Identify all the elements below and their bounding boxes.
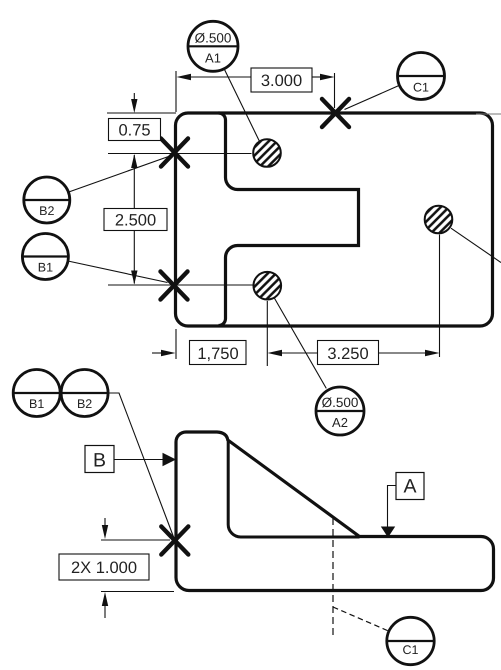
svg-text:B2: B2 (39, 204, 54, 218)
datum feature triangle A (381, 527, 395, 538)
leader A box to datum triangle (388, 486, 397, 529)
datum feature triangle B (163, 453, 177, 467)
svg-text:B1: B1 (38, 261, 53, 275)
hidden target centerline (dashed vertical) (332, 518, 334, 636)
svg-text:B2: B2 (77, 397, 92, 411)
datum letter box A (396, 473, 424, 500)
datum target area A2 (hatched circle) (253, 272, 281, 300)
extension line left edge (3.000 dim) (175, 71, 177, 112)
dimension line 3.000 left segment with arrow (177, 74, 252, 81)
wall face and base top edge (front view) (228, 441, 359, 537)
svg-text:A: A (403, 476, 416, 498)
dimension line 3.250 left segment (268, 350, 318, 356)
extension line top edge (0.75 dim) (107, 112, 176, 114)
datum target balloon A2 (316, 387, 364, 435)
part outline front view (176, 432, 494, 591)
dimension box 3.000 (251, 68, 312, 92)
0.75 upper arrow (131, 93, 137, 113)
leader C1 balloon to top target point (345, 85, 400, 109)
svg-text:Ø.500: Ø.500 (195, 31, 232, 46)
svg-text:C1: C1 (413, 81, 429, 95)
datum target balloon B1 (top view) (22, 234, 68, 280)
leader B1 to lower target point (68, 261, 168, 283)
svg-text:2X 1.000: 2X 1.000 (71, 559, 137, 577)
wall and rib silhouette lines (top view) (219, 113, 359, 326)
dimension box 3.250 (318, 341, 379, 365)
extension line at C1 target (3.000 dim) (334, 73, 336, 108)
svg-text:A2: A2 (332, 415, 348, 430)
svg-text:3.250: 3.250 (327, 345, 368, 363)
part outline top view (176, 113, 493, 326)
svg-text:2.500: 2.500 (115, 212, 156, 230)
extension line through upper X to target area A1 (108, 153, 252, 155)
svg-text:A1: A1 (205, 51, 221, 66)
svg-text:0.75: 0.75 (118, 122, 150, 140)
svg-text:C1: C1 (403, 643, 419, 657)
dimension box 0.75 (109, 119, 161, 141)
dimension line 3.000 right segment with arrow (312, 74, 335, 81)
datum target point X front view (161, 527, 188, 555)
dimension box 2X 1.000 (59, 554, 149, 580)
datum target point X top (C1) (322, 99, 349, 127)
datum target balloon C1 (front view) (387, 617, 434, 664)
2X 1.000 lower arrow (102, 592, 108, 618)
leader B2 to upper target point (68, 157, 168, 193)
extension line below A2 (dims) (266, 301, 268, 366)
dimension box 2.500 (104, 209, 167, 231)
extension line below left edge (1,750 dim) (175, 329, 177, 359)
leader A2 balloon to target area A2 (274, 298, 326, 388)
extension line at bottom edge (101, 591, 174, 593)
datum target area A3 (hatched circle) (425, 206, 453, 234)
datum target point X lower left (161, 272, 188, 300)
dimension line 2.500 with outward arrows (131, 154, 137, 285)
dimension box 1,750 (190, 341, 247, 365)
datum target area A1 (hatched circle) (253, 139, 281, 167)
extension line through lower X to target area A2 (108, 284, 254, 286)
chord line through B1 B2 balloons (13, 392, 108, 394)
datum target balloon B2 (top view) (24, 177, 70, 223)
extension line through front X (101, 539, 170, 541)
leader B2/B1 balloons to front target point (13, 393, 174, 540)
leader target area A3 to right edge (451, 228, 501, 262)
datum target point X upper left (161, 139, 188, 167)
svg-text:1,750: 1,750 (197, 345, 238, 363)
extension line below A3 (3.250 dim) (439, 235, 441, 358)
svg-text:3.000: 3.000 (261, 72, 302, 90)
datum target balloon C1 (top view) (398, 53, 445, 100)
hidden leader to C1 balloon (dashed) (333, 607, 389, 631)
datum target balloon A1 (188, 21, 238, 71)
leader B box to datum triangle (115, 459, 165, 461)
thin edge continuation top right (476, 113, 501, 115)
2X 1.000 upper arrow (102, 518, 108, 539)
svg-text:B: B (93, 450, 106, 472)
datum letter box B (85, 446, 114, 473)
svg-text:B1: B1 (29, 397, 44, 411)
datum target balloon B1 (front view) (13, 370, 60, 417)
dimension line 3.250 right segment (379, 350, 440, 356)
leader A1 balloon to target area A1 (224, 69, 259, 142)
datum target balloon B2 (front view) (61, 370, 108, 417)
svg-text:Ø.500: Ø.500 (322, 395, 359, 410)
dimension line 1,750 left arrow (152, 350, 176, 356)
